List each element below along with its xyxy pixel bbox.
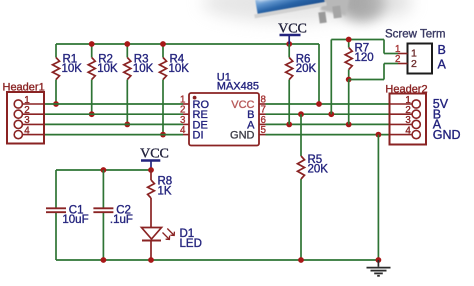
wire B top horizontal <box>331 39 384 41</box>
junction A to R7 <box>346 122 352 128</box>
svg-text:4: 4 <box>180 125 186 136</box>
junction R2 top <box>89 41 95 47</box>
Header2 pin 1 5V <box>390 95 449 111</box>
Header2 pin 2 B <box>390 105 442 121</box>
junction B to R5 <box>298 111 304 117</box>
Header1 pin 4 <box>14 125 44 138</box>
svg-text:A: A <box>438 58 447 72</box>
svg-text:20K: 20K <box>308 164 329 176</box>
power symbol VCC (top) <box>278 22 307 45</box>
connector Header2 <box>385 84 427 145</box>
svg-text:.1uF: .1uF <box>110 214 133 226</box>
junction C2 bottom <box>101 257 107 263</box>
IC U1 MAX485 body <box>189 72 259 146</box>
wire B to screw pin1 <box>384 40 398 54</box>
wire VCC to caps <box>56 169 151 171</box>
U1 pin 8 VCC <box>231 95 266 112</box>
svg-text:Screw Term: Screw Term <box>385 29 446 41</box>
junction GND drop <box>376 132 382 138</box>
U1 pin 6 A <box>247 115 266 131</box>
wire ground rail <box>56 259 378 261</box>
resistor R2 10K <box>88 44 118 114</box>
Header1 pin 1 <box>14 95 44 108</box>
svg-text:MAX485: MAX485 <box>217 80 259 92</box>
junction R2 bottom <box>89 111 95 117</box>
wire Header1 pin3 to U1 <box>44 123 183 125</box>
wire U1 to Header2 net 5V <box>266 103 390 105</box>
capacitor C1 10uF <box>46 170 89 260</box>
wire U1 to Header2 net A <box>266 123 390 125</box>
junction VCC/R8 <box>148 167 154 173</box>
resistor R5 20K <box>298 114 329 260</box>
wire U1 to Header2 net B <box>266 113 390 115</box>
resistor R1 10K <box>53 44 83 104</box>
wire R7 bottom down to A <box>348 80 350 125</box>
wire VCC top rail <box>56 43 319 45</box>
svg-text:GND: GND <box>230 130 255 142</box>
junction R3 top <box>124 41 130 47</box>
Header2 pin 4 GND <box>390 125 461 141</box>
power symbol VCC (bottom) <box>140 146 169 170</box>
Screw Term pin 2 A <box>395 54 446 72</box>
U1 pin 1 RO <box>180 95 209 112</box>
junction LED bottom <box>148 257 154 263</box>
svg-text:4: 4 <box>405 125 411 136</box>
junction R7 top <box>346 37 352 43</box>
junction R5 bottom <box>298 257 304 263</box>
resistor R6 20K <box>286 44 317 124</box>
wire U1 to Header2 net GND <box>266 134 390 136</box>
resistor R8 1K <box>148 170 173 228</box>
U1 pin 3 DE <box>180 115 208 131</box>
wire rail to U1 pin8 <box>318 44 320 104</box>
wire Header1 pin4 to U1 <box>44 134 183 136</box>
junction VCC/R6 top <box>286 41 292 47</box>
svg-text:1K: 1K <box>158 186 172 198</box>
junction ground <box>376 257 382 263</box>
svg-text:20K: 20K <box>296 63 317 75</box>
connector Screw Term body <box>385 29 446 74</box>
junction C2 top <box>101 167 107 173</box>
svg-text:VCC: VCC <box>140 146 169 161</box>
ground <box>367 260 391 276</box>
Header2 pin 3 A <box>390 115 442 131</box>
wire R7 bottom to screw pin2 <box>349 64 398 80</box>
svg-text:10K: 10K <box>97 63 118 75</box>
U1 pin 7 B <box>247 105 266 122</box>
connector Header1 <box>3 82 45 144</box>
junction B to R7 <box>328 111 334 117</box>
wire Header1 pin2 to U1 <box>44 113 183 115</box>
junction R1 bottom <box>53 101 59 107</box>
U1 pin 2 RE <box>180 105 208 122</box>
junction A to R6 <box>286 122 292 128</box>
svg-text:10K: 10K <box>169 63 190 75</box>
wire B up <box>330 40 332 115</box>
capacitor C2 .1uF <box>93 170 133 260</box>
resistor R4 10K <box>160 44 190 135</box>
wire GND to ground rail <box>377 135 379 260</box>
svg-text:120: 120 <box>355 52 374 64</box>
junction R7 bottom <box>346 77 352 83</box>
svg-text:4: 4 <box>24 125 30 136</box>
svg-text:LED: LED <box>180 238 202 250</box>
Header1 pin 2 <box>14 105 44 118</box>
U1 pin 5 GND <box>230 125 266 142</box>
svg-text:2: 2 <box>411 58 417 70</box>
resistor R3 10K <box>124 44 154 124</box>
junction R4 bottom <box>160 132 166 138</box>
junction U1 VCC pin8 <box>316 101 322 107</box>
resistor R7 120 <box>345 40 373 80</box>
junction R4 top <box>160 41 166 47</box>
svg-text:GND: GND <box>433 128 461 142</box>
LED D1 <box>142 228 202 261</box>
wire Header1 pin1 to U1 <box>44 103 183 105</box>
U1 pin 4 DI <box>180 125 203 142</box>
svg-text:DI: DI <box>193 130 204 142</box>
svg-text:10K: 10K <box>62 63 83 75</box>
Screw Term pin 1 B <box>395 43 446 60</box>
junction R3 bottom <box>124 122 130 128</box>
svg-text:B: B <box>438 43 446 57</box>
Header1 pin 3 <box>14 115 44 128</box>
svg-text:2: 2 <box>395 54 400 65</box>
svg-text:10K: 10K <box>133 63 154 75</box>
svg-text:10uF: 10uF <box>62 214 88 226</box>
